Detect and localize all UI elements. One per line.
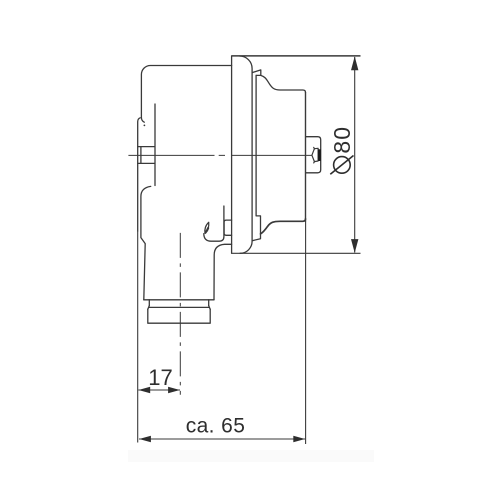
svg-text:17: 17 [148,365,172,390]
svg-text:80: 80 [329,126,355,154]
svg-text:ca. 65: ca. 65 [186,415,246,438]
